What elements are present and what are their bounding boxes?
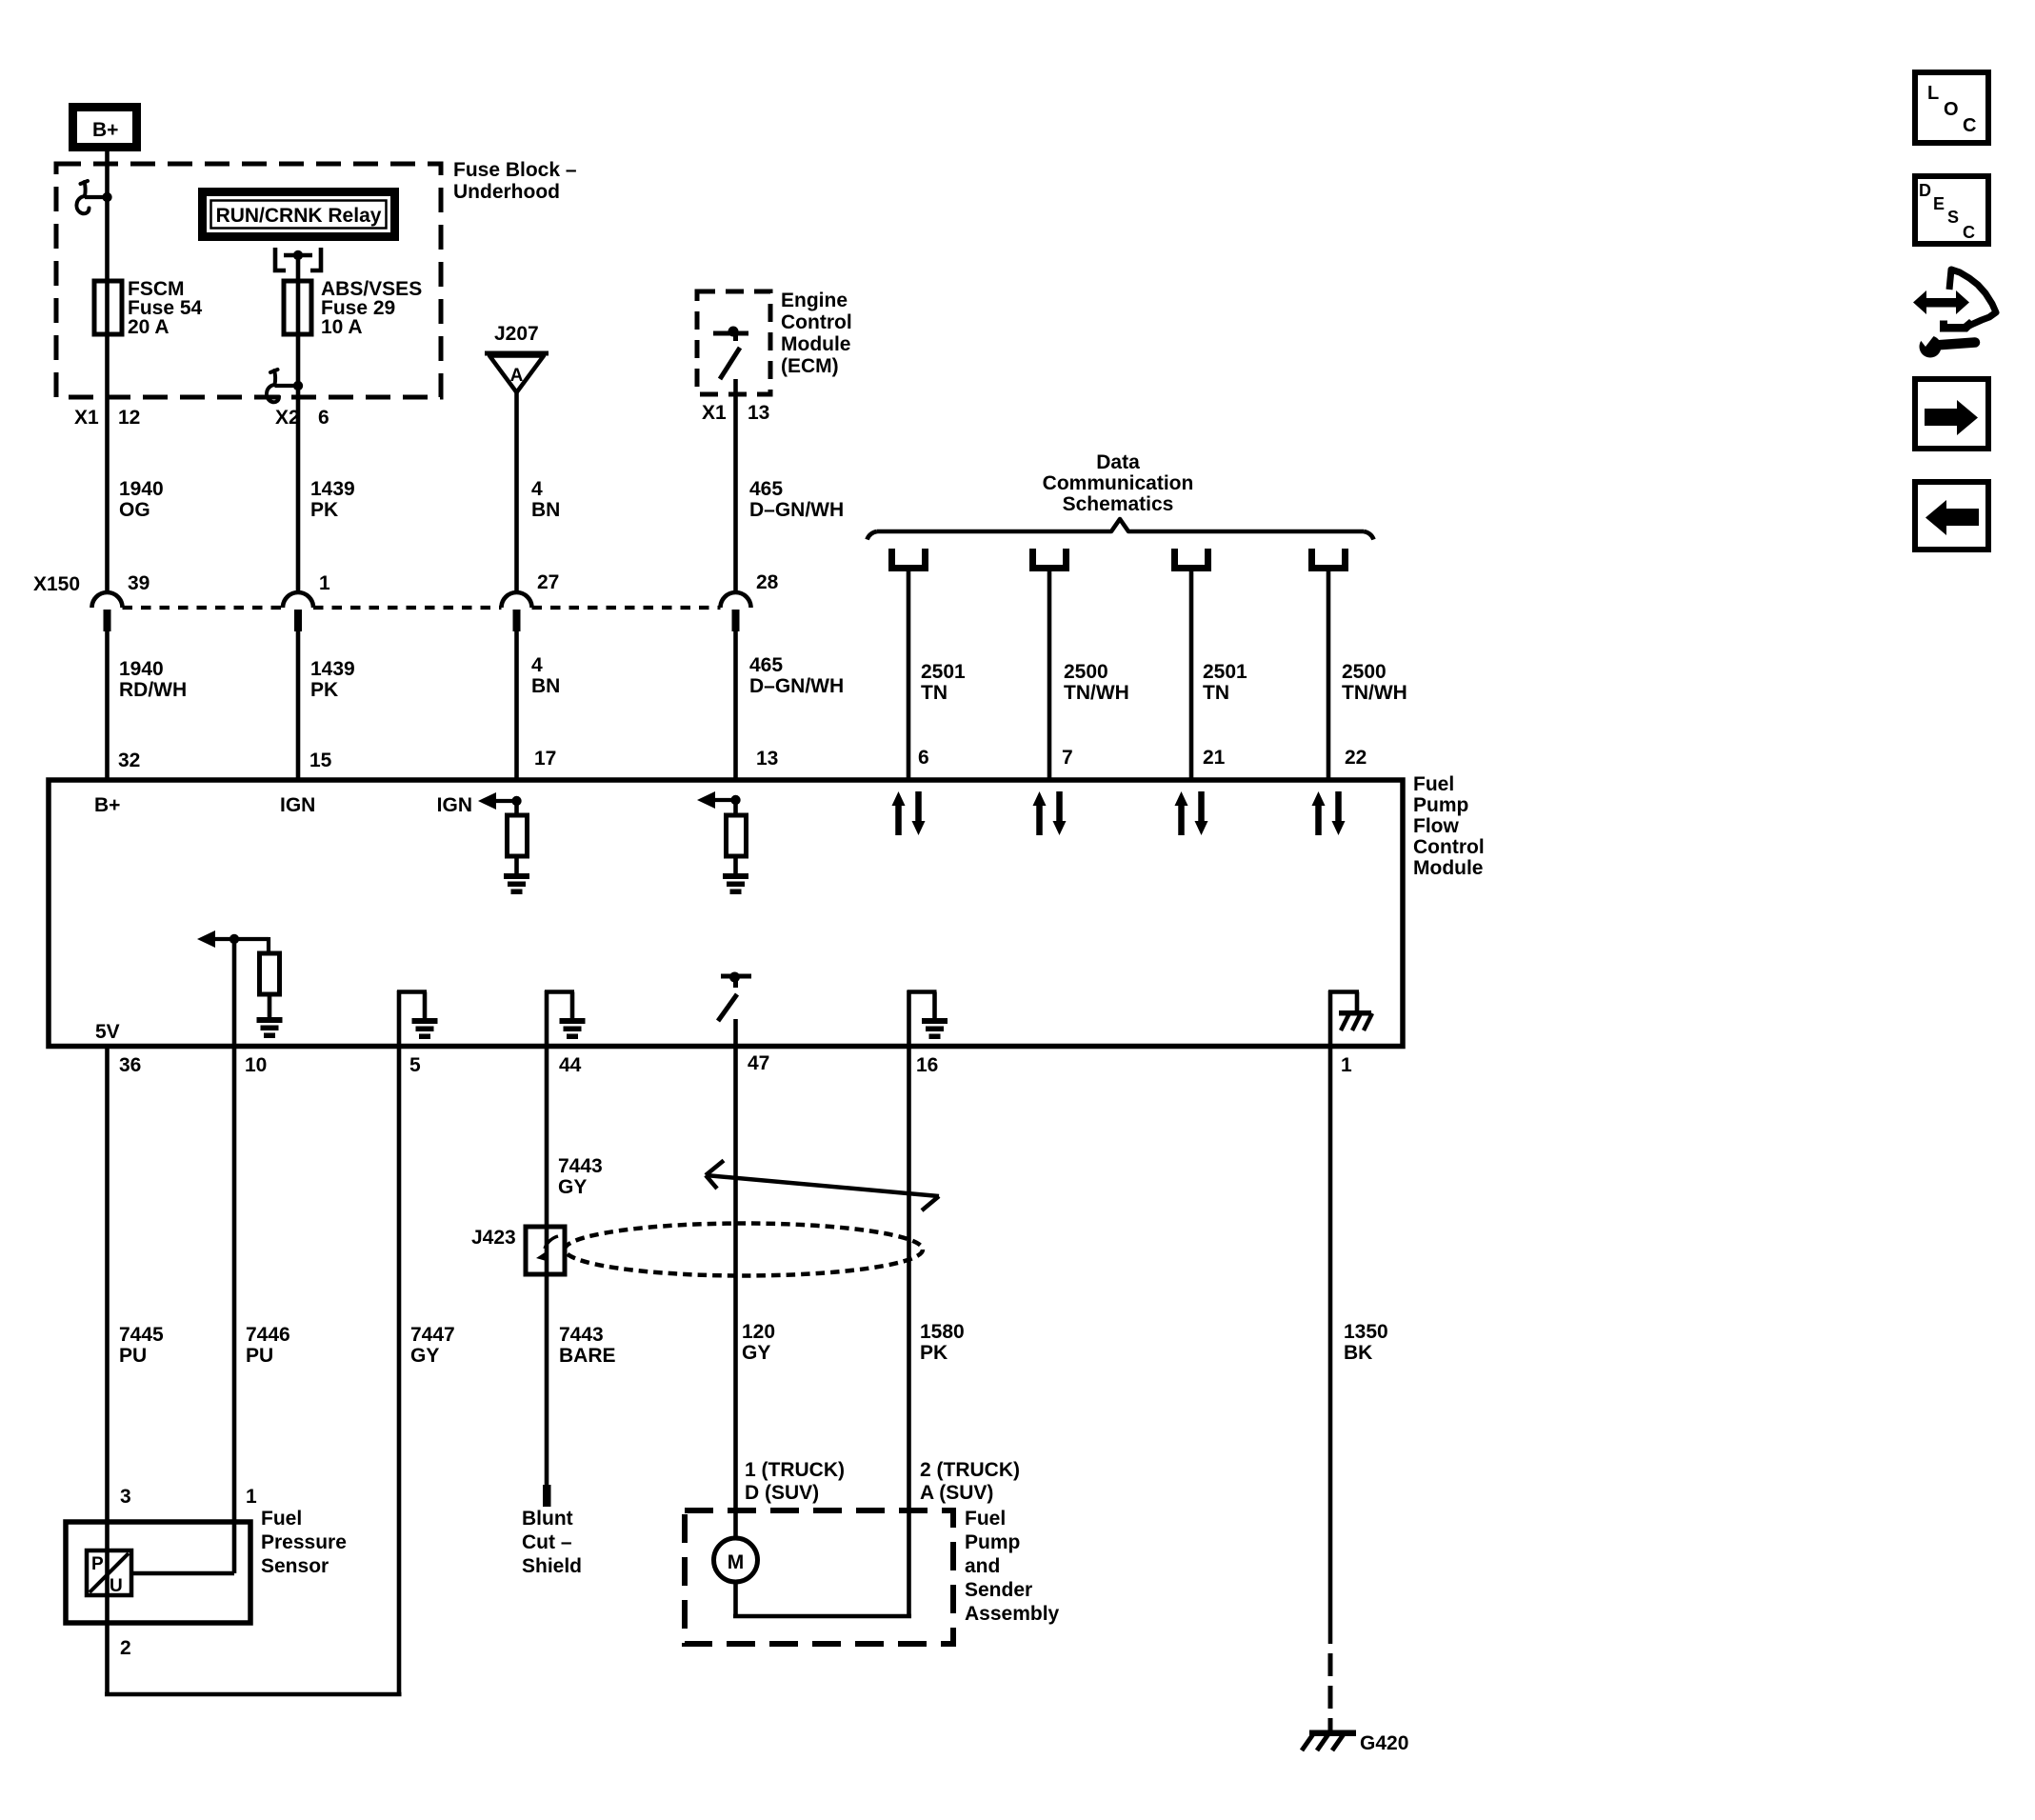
svg-text:OG: OG (119, 499, 150, 521)
wire 7445 PU pin 36 to fuel pressure sensor pin 3 (105, 1046, 110, 1694)
svg-text:B+: B+ (92, 119, 118, 141)
Engine Control Module (ECM) dashed box (697, 291, 770, 394)
ECM driver switch symbol (713, 327, 748, 380)
svg-text:TN: TN (921, 682, 948, 704)
svg-text:Pump: Pump (965, 1531, 1020, 1553)
svg-text:7445: 7445 (119, 1324, 164, 1346)
svg-text:1 (TRUCK): 1 (TRUCK) (745, 1459, 845, 1481)
svg-text:Control: Control (781, 311, 852, 333)
svg-text:PK: PK (310, 679, 338, 701)
svg-text:E: E (1933, 194, 1945, 213)
module internal ground pin 44 (545, 990, 586, 1046)
forward hyperlink icon (1915, 379, 1988, 449)
svg-text:BN: BN (531, 499, 560, 521)
fusible link hook at B+ feed (76, 181, 111, 213)
svg-text:Fuel: Fuel (965, 1508, 1006, 1530)
LOC hyperlink icon (1915, 72, 1988, 143)
svg-text:Assembly: Assembly (965, 1603, 1060, 1625)
module internal ground pin 10 (257, 1017, 283, 1038)
X150 stub pin 28 (732, 610, 740, 631)
module internal ground pin 13 (723, 873, 748, 894)
svg-text:1439: 1439 (310, 478, 355, 500)
svg-text:1940: 1940 (119, 658, 164, 680)
G420 ground symbol (1302, 1730, 1356, 1751)
ABS/VSES Fuse 29 10 A fuse symbol (284, 281, 311, 334)
J423 shield junction square (526, 1227, 565, 1274)
svg-text:2: 2 (120, 1637, 131, 1659)
svg-text:TN/WH: TN/WH (1342, 682, 1407, 704)
svg-text:S: S (1947, 208, 1959, 227)
svg-text:X1: X1 (702, 402, 727, 424)
svg-text:39: 39 (128, 572, 150, 594)
shield reference arrow across wires 47 and 16 (706, 1161, 939, 1211)
svg-text:Pressure: Pressure (261, 1531, 347, 1553)
RUN/CRNK Relay box (203, 192, 395, 237)
svg-text:Pump: Pump (1413, 794, 1468, 816)
wire 1350 BK dashed segment to G420 (1328, 1653, 1333, 1731)
svg-text:21: 21 (1203, 747, 1226, 769)
svg-text:44: 44 (559, 1054, 582, 1076)
svg-text:1350: 1350 (1344, 1321, 1388, 1343)
data connector symbol pin 7 wire (1033, 549, 1067, 569)
wire from J207 to module pin 17 (514, 392, 519, 594)
X150 connector dashed line (123, 606, 721, 610)
svg-text:TN: TN (1203, 682, 1229, 704)
X150 bump pin 39 (92, 592, 123, 608)
svg-text:PK: PK (310, 499, 338, 521)
wire 7447 GY pin 5 to sensor pin 2 return (397, 1046, 402, 1694)
svg-text:X150: X150 (33, 573, 80, 595)
svg-text:1: 1 (1341, 1054, 1352, 1076)
data connector symbol pin 22 wire (1312, 549, 1346, 569)
Fuel Pump and Sender Assembly dashed box (685, 1510, 953, 1644)
svg-text:36: 36 (119, 1054, 141, 1076)
svg-text:and: and (965, 1555, 1000, 1577)
svg-text:O: O (1944, 99, 1959, 120)
serial data bidirectional arrows pin 21 (1175, 791, 1208, 835)
svg-text:32: 32 (118, 750, 140, 771)
wire 7443 shield pin 44 (545, 1046, 549, 1486)
module internal resistor pin 10 (260, 953, 280, 1018)
diagnostic hand and wrench icon (1913, 270, 1996, 358)
Fuse Block - Underhood dashed box (56, 164, 441, 397)
svg-text:13: 13 (748, 402, 769, 424)
svg-text:4: 4 (531, 478, 543, 500)
svg-text:5V: 5V (95, 1021, 120, 1043)
svg-text:Shield: Shield (522, 1555, 582, 1577)
svg-text:2 (TRUCK): 2 (TRUCK) (920, 1459, 1020, 1481)
FSCM Fuse 54 20 A fuse symbol (94, 281, 122, 334)
svg-text:22: 22 (1345, 747, 1367, 769)
wire from ECM to module pin 13 (733, 379, 738, 594)
serial data bidirectional arrows pin 6 (892, 791, 926, 835)
svg-text:Blunt: Blunt (522, 1508, 573, 1530)
svg-text:D: D (1919, 181, 1931, 200)
svg-text:M: M (728, 1551, 745, 1573)
fuel pump motor return wire (733, 1582, 911, 1616)
shield dashed ellipse (565, 1224, 923, 1276)
svg-text:PK: PK (920, 1342, 948, 1364)
svg-text:Communication: Communication (1043, 472, 1194, 494)
svg-text:47: 47 (748, 1052, 769, 1074)
svg-text:3: 3 (120, 1486, 131, 1508)
svg-text:Underhood: Underhood (453, 181, 560, 203)
svg-text:IGN: IGN (437, 794, 472, 816)
back hyperlink icon (1915, 482, 1988, 550)
module internal chassis ground pin 1 (1328, 990, 1372, 1046)
svg-text:(ECM): (ECM) (781, 355, 839, 377)
svg-text:RD/WH: RD/WH (119, 679, 187, 701)
module internal pull-up resistor pin 13 (727, 800, 747, 874)
svg-text:IGN: IGN (280, 794, 315, 816)
svg-text:15: 15 (309, 750, 332, 771)
svg-text:20 A: 20 A (128, 316, 170, 338)
svg-text:P: P (91, 1554, 104, 1574)
serial data bidirectional arrows pin 7 (1033, 791, 1067, 835)
svg-text:10 A: 10 A (321, 316, 363, 338)
X150 stub pin 27 (513, 610, 521, 631)
module internal IGN arrow pin 17 (437, 792, 522, 816)
wire 1940 RD/WH X150 to pin 32 (105, 629, 110, 780)
Fuel Pump Flow Control Module box (49, 780, 1403, 1047)
svg-text:Module: Module (781, 333, 851, 355)
wire from relay to module pin 15 (296, 255, 301, 594)
svg-text:465: 465 (749, 478, 783, 500)
wire 1439 PK X150 to pin 15 (296, 629, 301, 780)
X150 stub pin 1 (294, 610, 302, 631)
svg-text:BARE: BARE (559, 1345, 616, 1367)
svg-text:PU: PU (246, 1345, 273, 1367)
svg-text:10: 10 (245, 1054, 267, 1076)
module internal ground pin 5 (397, 990, 438, 1046)
wire 4 BN X150 to pin 17 (514, 629, 519, 780)
svg-text:1580: 1580 (920, 1321, 965, 1343)
DESC hyperlink icon (1915, 176, 1988, 244)
wire 465 D-GN/WH X150 to pin 13 (733, 629, 738, 780)
svg-text:4: 4 (531, 654, 543, 676)
svg-text:GY: GY (742, 1342, 770, 1364)
wire 1580 PK pin 16 to fuel pump (907, 1046, 911, 1616)
relay contact bracket (275, 248, 321, 270)
svg-text:G420: G420 (1360, 1732, 1408, 1754)
svg-text:7: 7 (1062, 747, 1073, 769)
P/U pressure transducer cell (87, 1550, 131, 1596)
data connector symbol pin 6 wire (892, 549, 926, 569)
svg-text:PU: PU (119, 1345, 147, 1367)
splice J207 symbol (485, 353, 549, 392)
svg-text:Sensor: Sensor (261, 1555, 329, 1577)
svg-text:RUN/CRNK Relay: RUN/CRNK Relay (216, 205, 382, 227)
svg-text:BK: BK (1344, 1342, 1372, 1364)
svg-text:Fuse Block –: Fuse Block – (453, 159, 577, 181)
svg-text:17: 17 (534, 748, 556, 770)
svg-text:C: C (1963, 115, 1976, 136)
X150 stub pin 39 (104, 610, 111, 631)
wire 120 GY pin 47 to fuel pump (733, 1046, 738, 1539)
svg-text:1: 1 (319, 572, 330, 594)
svg-text:A: A (510, 366, 524, 386)
Fuel Pressure Sensor box (66, 1522, 250, 1623)
data wire 2500 TN/WH to pin 7 (1047, 568, 1052, 780)
svg-text:28: 28 (756, 571, 779, 593)
svg-text:Sender: Sender (965, 1579, 1032, 1601)
svg-text:B+: B+ (94, 794, 120, 816)
module internal wire to pin 10 (232, 939, 237, 1046)
svg-text:TN/WH: TN/WH (1064, 682, 1129, 704)
svg-text:7443: 7443 (558, 1155, 603, 1177)
data wire 2501 TN to pin 6 (907, 568, 911, 780)
svg-text:1439: 1439 (310, 658, 355, 680)
svg-text:A (SUV): A (SUV) (920, 1482, 993, 1504)
svg-text:X2: X2 (275, 407, 300, 429)
svg-text:465: 465 (749, 654, 783, 676)
svg-text:D–GN/WH: D–GN/WH (749, 499, 844, 521)
svg-text:16: 16 (916, 1054, 938, 1076)
fusible link hook below fuse 29 (267, 370, 303, 402)
sensor internal wire to P/U cell (131, 1571, 234, 1576)
svg-text:1: 1 (246, 1486, 257, 1508)
svg-text:BN: BN (531, 675, 560, 697)
module internal pull-up resistor pin 17 (508, 801, 528, 874)
svg-text:Schematics: Schematics (1063, 493, 1174, 515)
X150 bump pin 27 (502, 592, 532, 608)
svg-text:2500: 2500 (1342, 661, 1387, 683)
svg-text:J423: J423 (471, 1227, 516, 1249)
svg-text:7446: 7446 (246, 1324, 290, 1346)
svg-text:2501: 2501 (1203, 661, 1247, 683)
svg-text:D–GN/WH: D–GN/WH (749, 675, 844, 697)
module internal ground pin 17 (504, 873, 529, 894)
svg-text:7443: 7443 (559, 1324, 604, 1346)
svg-text:Control: Control (1413, 836, 1485, 858)
X150 bump pin 1 (283, 592, 313, 608)
wire from B+ to module pin 32 (105, 151, 110, 594)
brace over data wires (868, 519, 1374, 540)
svg-text:6: 6 (918, 747, 929, 769)
svg-text:Fuel: Fuel (261, 1508, 302, 1530)
X150 bump pin 28 (721, 592, 751, 608)
wire 1350 BK pin 1 solid segment (1328, 1046, 1333, 1644)
data wire 2500 TN/WH to pin 22 (1327, 568, 1331, 780)
svg-text:1940: 1940 (119, 478, 164, 500)
B+ power symbol box (73, 108, 137, 148)
svg-text:Data: Data (1096, 451, 1140, 473)
svg-text:GY: GY (410, 1345, 439, 1367)
data wire 2501 TN to pin 21 (1189, 568, 1194, 780)
svg-text:L: L (1927, 83, 1939, 104)
svg-text:6: 6 (318, 407, 329, 429)
serial data bidirectional arrows pin 22 (1312, 791, 1346, 835)
svg-text:2500: 2500 (1064, 661, 1108, 683)
svg-text:Cut –: Cut – (522, 1531, 572, 1553)
svg-text:Flow: Flow (1413, 815, 1459, 837)
svg-text:2501: 2501 (921, 661, 966, 683)
svg-text:5: 5 (409, 1054, 421, 1076)
svg-text:C: C (1963, 223, 1975, 242)
svg-text:7447: 7447 (410, 1324, 455, 1346)
wire sensor low reference link (105, 1692, 402, 1697)
svg-text:X1: X1 (74, 407, 99, 429)
blunt cut shield termination (543, 1485, 551, 1507)
svg-text:27: 27 (537, 571, 559, 593)
module internal driver switch pin 47 (718, 972, 751, 1047)
svg-text:U: U (110, 1576, 123, 1596)
svg-text:12: 12 (118, 407, 140, 429)
svg-text:120: 120 (742, 1321, 775, 1343)
svg-text:D (SUV): D (SUV) (745, 1482, 819, 1504)
svg-text:J207: J207 (494, 323, 539, 345)
data connector symbol pin 21 wire (1175, 549, 1208, 569)
svg-text:Engine: Engine (781, 290, 848, 311)
svg-text:Module: Module (1413, 857, 1484, 879)
module internal ground pin 16 (908, 990, 948, 1046)
svg-text:13: 13 (756, 748, 778, 770)
wire 7446 PU pin 10 to fuel pressure sensor pin 1 (232, 1046, 237, 1573)
svg-text:Fuel: Fuel (1413, 773, 1454, 795)
fuel pump motor M (714, 1538, 758, 1582)
module internal 5V reference arrow pin 10 (197, 930, 269, 953)
module internal arrow pin 13 (697, 791, 741, 809)
svg-text:GY: GY (558, 1176, 587, 1198)
